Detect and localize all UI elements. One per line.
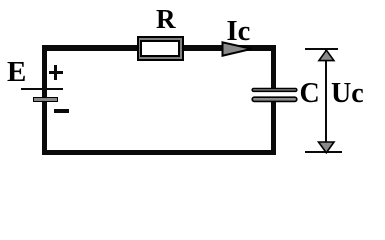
label E: [7, 58, 26, 87]
resistor R (box): [137, 36, 184, 60]
label R: [156, 6, 176, 33]
minus sign of battery: [54, 109, 69, 112]
wire: right vertical upper (to capacitor top plate): [271, 45, 277, 90]
Uc arrow: top tick: [305, 48, 338, 50]
wire: left vertical (battery branch): [42, 45, 47, 155]
wire: right vertical lower (capacitor bottom plate to bottom wire): [271, 101, 277, 155]
label Uc: [331, 80, 364, 108]
current arrow Ic (gray arrowhead on top wire): [218, 38, 258, 60]
wire: top horizontal (battery to capacitor branch): [42, 45, 276, 51]
Uc measurement arrow: shaft: [325, 50, 327, 153]
plus sign of battery: [49, 71, 64, 74]
battery E: long thin positive plate: [21, 88, 63, 90]
label Ic: [227, 18, 251, 47]
capacitor C: top plate: [249, 85, 299, 105]
Uc arrow: bottom arrowhead (points down): [314, 138, 339, 156]
Uc arrow: bottom tick: [305, 151, 342, 153]
Uc arrow: top arrowhead (points up): [314, 47, 339, 65]
label C: [300, 80, 320, 108]
battery E: short thick negative plate: [33, 97, 58, 103]
wire: bottom horizontal: [42, 150, 276, 155]
